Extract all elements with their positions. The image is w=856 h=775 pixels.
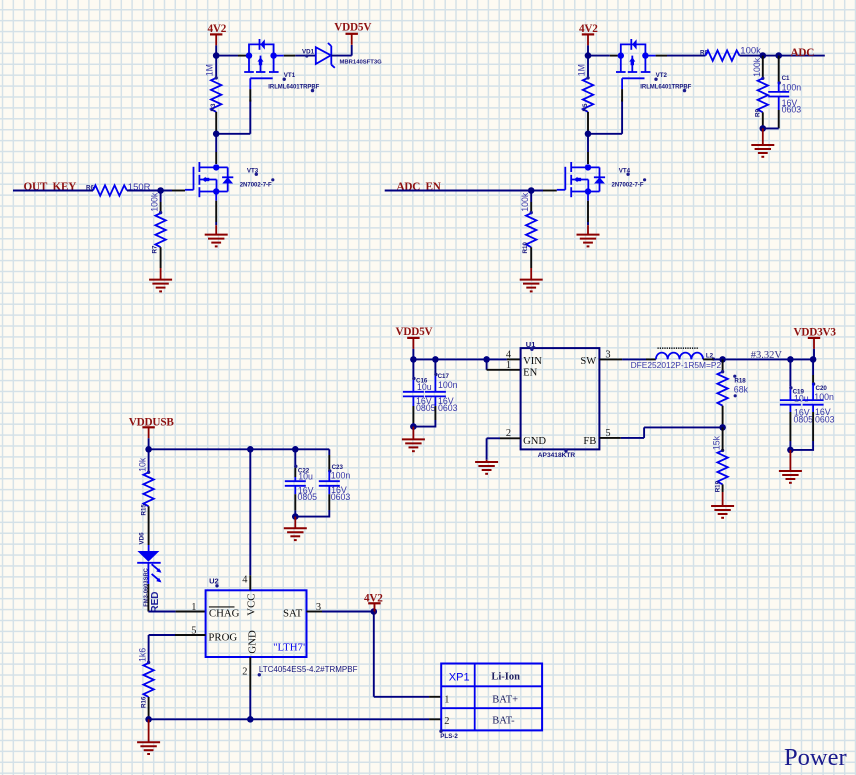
pin 3 SW xyxy=(580,349,610,367)
svg-text:R10: R10 xyxy=(522,242,529,254)
svg-text:FB: FB xyxy=(583,436,596,447)
ground (buck input caps) xyxy=(402,427,425,452)
wire SAT pin to 4V2 xyxy=(307,611,374,613)
node gate junction xyxy=(213,131,220,138)
svg-text:VD6: VD6 xyxy=(139,532,146,545)
power 4V2 (top-right) xyxy=(579,23,598,56)
svg-text:VT2: VT2 xyxy=(656,72,668,79)
svg-text:2: 2 xyxy=(444,716,449,727)
resistor R8 100k series xyxy=(700,46,761,61)
svg-text:VDD3V3: VDD3V3 xyxy=(794,326,837,338)
svg-text:VT1: VT1 xyxy=(284,72,296,79)
resistor R10 100k pulldown xyxy=(520,191,536,269)
wire gate net xyxy=(216,100,250,134)
pin 4 VIN xyxy=(506,349,542,367)
svg-text:BAT+: BAT+ xyxy=(492,694,518,705)
resistor R15 10k xyxy=(138,449,154,551)
op-amp U1 AP3418KTR body xyxy=(521,340,600,459)
svg-text:VIN: VIN xyxy=(523,356,542,367)
svg-text:0603: 0603 xyxy=(782,104,802,114)
node VIN junction xyxy=(410,356,417,363)
wire VT2 drain to R xyxy=(645,55,705,57)
wire VT3 source down xyxy=(215,192,217,226)
ground (below R10) xyxy=(520,268,543,291)
svg-text:4V2: 4V2 xyxy=(208,23,227,35)
node FB junction xyxy=(719,424,726,431)
svg-text:CHAG: CHAG xyxy=(209,608,240,620)
wire SW pin xyxy=(599,358,656,360)
svg-text:0805: 0805 xyxy=(298,492,318,502)
svg-text:1M: 1M xyxy=(576,64,586,76)
wire VT1 drain to VD1 xyxy=(274,55,316,57)
svg-text:4: 4 xyxy=(506,349,512,360)
svg-text:#3.32V: #3.32V xyxy=(751,350,783,361)
svg-text:0603: 0603 xyxy=(331,492,351,502)
svg-text:U1: U1 xyxy=(526,340,536,349)
svg-text:68k: 68k xyxy=(734,385,749,395)
svg-text:0805: 0805 xyxy=(794,415,814,425)
svg-text:1: 1 xyxy=(444,695,449,706)
svg-text:100k: 100k xyxy=(520,192,530,212)
node ADC_EN junction xyxy=(528,187,535,194)
led VD6 RED FM3-0603SRC xyxy=(137,532,161,613)
pin 4 VCC xyxy=(242,575,257,616)
node gate junction xyxy=(585,131,592,138)
svg-text:PROG: PROG xyxy=(208,632,237,644)
svg-text:1k6: 1k6 xyxy=(138,648,148,662)
resistor R19 15k xyxy=(712,427,728,492)
node junction R xyxy=(760,52,767,59)
power 4V2 (top-left) xyxy=(208,23,227,56)
wire bottom rail BAT- xyxy=(149,718,442,720)
svg-text:R9: R9 xyxy=(754,109,761,117)
svg-text:1: 1 xyxy=(506,360,511,371)
wire EN jog xyxy=(487,359,521,369)
svg-text:RED: RED xyxy=(150,591,161,612)
svg-text:10u: 10u xyxy=(298,471,313,481)
wire PROG to R16 xyxy=(149,634,206,636)
svg-text:GND: GND xyxy=(523,436,546,447)
capacitor C1 100n xyxy=(763,56,801,129)
pin 2 GND xyxy=(242,630,258,677)
ground (U1 gnd pin) xyxy=(475,460,498,474)
svg-text:100n: 100n xyxy=(331,471,351,481)
power VDDUSB xyxy=(129,416,175,449)
svg-text:C20: C20 xyxy=(816,385,828,392)
svg-text:R5: R5 xyxy=(582,103,589,111)
svg-text:0603: 0603 xyxy=(815,414,835,424)
svg-text:EN: EN xyxy=(523,367,537,378)
resistor R6 150R xyxy=(86,182,151,196)
svg-text:XP1: XP1 xyxy=(449,671,470,683)
svg-text:MBR140SFT3G: MBR140SFT3G xyxy=(340,60,383,66)
resistor R7 100k pulldown xyxy=(150,191,166,269)
resistor R18 68k xyxy=(717,359,748,427)
svg-text:Li-Ion: Li-Ion xyxy=(491,672,520,683)
capacitor C23 100n xyxy=(295,449,350,516)
inductor L2 DFE252012P-1R5M xyxy=(631,348,722,370)
svg-text:15k: 15k xyxy=(712,435,722,450)
wire VCC pin xyxy=(249,449,251,590)
svg-text:BAT-: BAT- xyxy=(492,716,515,727)
pin 5 PROG xyxy=(191,626,237,644)
wire 4V2 to VT1 source xyxy=(216,55,246,57)
wire VCC rail xyxy=(149,448,330,450)
node gnd junction xyxy=(760,125,767,132)
svg-text:2N7002-7-F: 2N7002-7-F xyxy=(612,182,644,188)
svg-text:10u: 10u xyxy=(794,393,809,403)
svg-text:4: 4 xyxy=(242,575,248,586)
node 4V2 junction xyxy=(585,52,592,59)
node cap gnd junction xyxy=(410,423,417,430)
resistor R16 1k6 xyxy=(138,635,154,719)
capacitor C22 10u xyxy=(285,449,317,516)
node 4V2 junction xyxy=(213,52,220,59)
node SAT junction xyxy=(371,608,378,615)
svg-text:DFE252012P-1R5M=P2: DFE252012P-1R5M=P2 xyxy=(631,360,722,370)
wire LED cathode to CHAG xyxy=(148,563,205,612)
node junction C xyxy=(775,52,782,59)
wire 4V2 to VT2 source xyxy=(588,55,618,57)
wire VD1 to VDD5V xyxy=(331,45,351,56)
svg-text:ADC: ADC xyxy=(791,47,815,59)
power VDD5V (top-left) xyxy=(334,22,371,45)
svg-text:4V2: 4V2 xyxy=(579,23,598,35)
wire VT4 source down xyxy=(587,192,589,226)
svg-text:AP3418KTR: AP3418KTR xyxy=(538,452,576,459)
svg-text:PLS-2: PLS-2 xyxy=(440,733,458,740)
ground (below VT3) xyxy=(205,225,228,246)
svg-text:VDD5V: VDD5V xyxy=(334,22,371,34)
svg-text:R19: R19 xyxy=(715,480,722,492)
svg-text:100k: 100k xyxy=(150,192,160,212)
wire FB pin to divider xyxy=(599,427,722,438)
svg-text:1: 1 xyxy=(191,602,196,613)
svg-text:SW: SW xyxy=(580,356,596,367)
pin 5 FB xyxy=(583,428,610,447)
node output cap gnd xyxy=(787,447,794,454)
power VDD3V3 xyxy=(794,326,837,359)
ground (output caps) xyxy=(779,450,802,483)
transistor VT1 p-mosfet xyxy=(244,39,278,102)
svg-text:100n: 100n xyxy=(814,392,834,402)
svg-text:R15: R15 xyxy=(140,504,147,516)
wire VT3 drain up xyxy=(215,134,217,164)
resistor R3 1M xyxy=(205,56,222,134)
svg-text:GND: GND xyxy=(246,630,258,654)
svg-text:Power: Power xyxy=(784,744,847,771)
wire GND pin to ground xyxy=(487,438,521,460)
svg-text:R3: R3 xyxy=(210,103,217,111)
wire gate net xyxy=(588,100,622,134)
capacitor C17 100n xyxy=(413,359,457,426)
node OUT_KEY junction xyxy=(157,187,164,194)
resistor R9 100k to gnd xyxy=(752,56,768,129)
pin 1 CHAG xyxy=(191,602,239,620)
wire SAT to BAT+ xyxy=(374,612,441,697)
svg-text:R18: R18 xyxy=(734,377,746,384)
wire SW node rail xyxy=(703,358,713,360)
ground (below R19) xyxy=(711,492,734,518)
svg-text:VD1: VD1 xyxy=(302,49,315,56)
svg-text:LTC4054ES5-4.2#TRMPBF: LTC4054ES5-4.2#TRMPBF xyxy=(259,665,358,674)
resistor R5 1M xyxy=(576,56,593,134)
svg-text:VDD5V: VDD5V xyxy=(396,326,433,338)
wire OUT_KEY xyxy=(13,190,93,192)
wire GND pin down xyxy=(249,657,251,719)
ground (below R7) xyxy=(149,268,172,291)
svg-text:0805: 0805 xyxy=(416,403,436,413)
capacitor C19 10u xyxy=(780,359,813,450)
wire VIN rail xyxy=(413,358,520,360)
capacitor C20 100n xyxy=(790,359,834,450)
pin 3 SAT xyxy=(283,602,321,620)
svg-text:2N7002-7-F: 2N7002-7-F xyxy=(240,182,272,188)
transistor VT3 n-mosfet 2N7002 xyxy=(185,162,233,197)
diode VD1 MBR140SFT3G xyxy=(302,43,382,68)
svg-text:2: 2 xyxy=(242,666,247,677)
ground (ADC filter) xyxy=(751,128,774,156)
svg-text:1M: 1M xyxy=(205,64,215,76)
pin 1 EN xyxy=(506,360,538,378)
svg-text:100n: 100n xyxy=(782,82,802,92)
node VDDUSB junction xyxy=(145,446,152,453)
svg-text:C17: C17 xyxy=(438,373,450,380)
wire VT4 drain up xyxy=(587,134,589,164)
svg-text:C1: C1 xyxy=(782,75,790,82)
capacitor C16 10u xyxy=(403,359,436,426)
svg-text:100n: 100n xyxy=(438,380,458,390)
transistor VT4 n-mosfet 2N7002 xyxy=(557,162,605,197)
wire to ADC xyxy=(740,55,825,57)
transistor VT2 p-mosfet xyxy=(616,39,650,102)
ground (battery minus) xyxy=(137,719,160,754)
power VDD5V (buck) xyxy=(396,326,433,359)
wire ADC_EN xyxy=(385,190,557,192)
pin 2 GND xyxy=(506,428,547,447)
connector XP1 PLS-2 xyxy=(439,664,542,740)
svg-text:R7: R7 xyxy=(152,245,159,253)
svg-text:R16: R16 xyxy=(140,696,147,708)
svg-text:VCC: VCC xyxy=(246,593,258,615)
node caps gnd junction xyxy=(292,513,299,520)
wire 150R to gate xyxy=(127,190,185,192)
ground (below VT4) xyxy=(577,225,600,246)
svg-text:10k: 10k xyxy=(138,457,148,472)
power 4V2 (charger) xyxy=(364,592,383,614)
op-amp U2 LTC4054 body xyxy=(206,577,358,677)
svg-text:0603: 0603 xyxy=(438,403,458,413)
svg-text:"LTH7": "LTH7" xyxy=(273,641,307,653)
svg-text:10u: 10u xyxy=(417,382,432,392)
svg-text:100k: 100k xyxy=(752,57,762,77)
ground (charger caps) xyxy=(284,517,307,541)
svg-text:SAT: SAT xyxy=(283,607,303,619)
